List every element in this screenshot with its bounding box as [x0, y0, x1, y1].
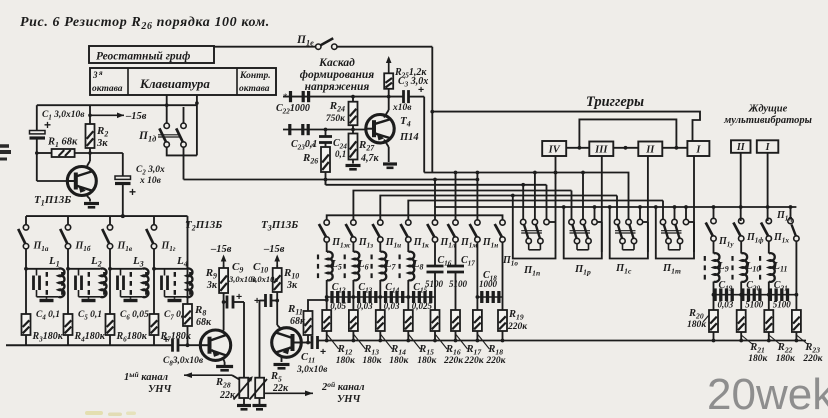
svg-text:Реостатный гриф: Реостатный гриф	[96, 50, 190, 63]
riser c5 tall	[434, 180, 436, 208]
switch middle col8	[500, 220, 505, 225]
svg-text:R6180к: R6180к	[116, 331, 148, 344]
wire R3 bottom	[25, 335, 27, 345]
monostable box I	[757, 140, 779, 153]
riser c6 to b0	[455, 173, 457, 220]
svg-text:5100: 5100	[745, 300, 764, 310]
svg-text:х 10в: х 10в	[139, 176, 162, 186]
wire from fretboard to П1е	[214, 46, 316, 48]
resistor R6	[106, 314, 115, 335]
svg-text:IV: IV	[548, 145, 561, 156]
trigger III output drop	[601, 156, 603, 252]
svg-text:октава: октава	[92, 84, 123, 94]
T4 emitter wire	[384, 110, 389, 118]
switch П1а	[25, 216, 27, 225]
svg-text:+: +	[44, 118, 51, 132]
switch middle col5	[432, 220, 437, 225]
riser П1р c3	[594, 207, 596, 219]
scan artifact left edge	[0, 144, 9, 148]
trigger coupling line B	[579, 119, 676, 147]
switch П1ц	[788, 218, 793, 223]
trigger chain link IV-III	[566, 147, 589, 149]
resistor R24	[352, 97, 354, 102]
left top bus	[26, 215, 188, 217]
svg-text:0,03: 0,03	[357, 301, 373, 311]
trigger box II	[638, 142, 662, 157]
wire C8 to T2 base	[178, 344, 200, 346]
resistor R19	[498, 310, 507, 331]
resistor R10	[276, 265, 278, 268]
capacitor C1	[36, 105, 38, 130]
capacitor C14	[380, 296, 408, 298]
svg-text:5100: 5100	[773, 300, 792, 310]
svg-text:–15в: –15в	[210, 244, 232, 255]
svg-text:Ждущие: Ждущие	[748, 104, 788, 115]
trigger IV output drop	[555, 156, 557, 222]
wire R4 bottom	[67, 335, 69, 345]
inductor L6	[352, 242, 354, 252]
-15v arrow T3	[276, 257, 278, 266]
svg-text:Контр.: Контр.	[239, 71, 271, 81]
svg-text:750к: 750к	[326, 114, 346, 124]
leader R21	[741, 335, 752, 344]
resistor R18	[473, 310, 482, 331]
svg-text:R1 68к: R1 68к	[47, 137, 78, 150]
wire R26 column to b2	[325, 180, 327, 185]
svg-text:С5 0,1: С5 0,1	[78, 310, 102, 322]
svg-text:Т3П13Б: Т3П13Б	[261, 219, 298, 233]
ground R5	[253, 404, 267, 407]
trigger II output drop	[647, 156, 649, 252]
svg-text:0,03: 0,03	[384, 301, 400, 311]
svg-text:УНЧ: УНЧ	[337, 394, 361, 405]
capacitor C3	[402, 90, 405, 103]
svg-text:+: +	[129, 185, 136, 199]
leader R22	[769, 335, 780, 344]
wire R1 row	[37, 152, 52, 154]
switch middle col4	[406, 220, 411, 225]
output arrow channel2	[265, 392, 313, 394]
wire col П1б drop	[67, 249, 69, 314]
junction b0-IV	[554, 171, 558, 175]
inductor L9	[714, 253, 720, 282]
leader R16	[435, 334, 447, 349]
tank ground bar	[168, 299, 182, 302]
wire col П1в drop	[109, 249, 111, 314]
capacitor C9	[224, 301, 227, 303]
inductor L11	[769, 253, 775, 282]
resistor R20	[709, 310, 718, 332]
inductor L1	[26, 268, 59, 270]
riser П1т c2	[674, 207, 676, 219]
riser П1с c1	[616, 196, 618, 220]
svg-text:Каскад: Каскад	[318, 57, 355, 69]
wire col L10	[740, 241, 742, 253]
svg-text:68к: 68к	[196, 317, 212, 328]
svg-text:180к: 180к	[776, 354, 796, 364]
svg-text:III: III	[594, 145, 608, 156]
svg-text:220к: 220к	[802, 354, 823, 364]
resistor R13	[349, 310, 358, 331]
riser П1у	[713, 207, 715, 218]
riser П1р c2	[582, 173, 584, 220]
capacitor C23 base wire	[283, 129, 366, 131]
svg-text:180к: 180к	[417, 356, 437, 366]
resistor R7	[150, 314, 159, 335]
wire keyboard tap right	[196, 95, 198, 155]
svg-text:3к: 3к	[206, 280, 218, 291]
svg-text:Триггеры: Триггеры	[586, 94, 644, 110]
trigger feed line A	[432, 112, 700, 141]
scan artifact bottom	[85, 411, 103, 415]
resistor R14	[376, 310, 385, 331]
transistor T3	[272, 328, 302, 358]
svg-text:*: *	[311, 142, 316, 153]
resistor R16	[431, 310, 440, 331]
riser П1п c2	[534, 173, 536, 220]
svg-text:Клавиатура: Клавиатура	[139, 76, 210, 91]
ground T1	[84, 202, 99, 205]
resistor R3	[22, 314, 31, 335]
svg-text:х10в: х10в	[392, 103, 412, 113]
resistor R8 feed	[187, 216, 189, 304]
capacitor C10	[264, 294, 267, 307]
wire C10 to R5	[260, 300, 266, 302]
svg-text:0,03: 0,03	[718, 300, 734, 310]
T3 emitter wire	[277, 325, 281, 330]
svg-text:3: 3	[92, 70, 98, 80]
svg-text:С2 3,0х: С2 3,0х	[136, 165, 165, 177]
wire П1е to right corner	[337, 46, 432, 48]
wire П1ц drop	[795, 241, 797, 309]
wire L10 bottom	[740, 282, 742, 310]
svg-text:–15в: –15в	[125, 111, 147, 122]
svg-text:напряжения: напряжения	[305, 81, 370, 93]
wire col П1а drop	[25, 249, 27, 314]
capacitor C13	[353, 296, 380, 298]
rheostat fretboard block	[89, 46, 214, 63]
wire over right П1д contact	[183, 107, 185, 123]
T2 emitter wire	[223, 330, 224, 333]
tank ground bar	[124, 299, 138, 302]
wire top of T1 stage	[37, 104, 197, 106]
wire П1е vertical drop	[431, 47, 433, 173]
switch П1ф	[740, 217, 743, 219]
bus b0	[424, 173, 628, 220]
inductor L4	[154, 268, 187, 270]
switch middle col3	[378, 220, 383, 225]
monostable I output drop	[767, 153, 769, 221]
leader R18	[477, 334, 489, 349]
ground T2	[216, 365, 233, 368]
tank ground bar	[82, 299, 96, 302]
svg-text:R3180к: R3180к	[32, 331, 64, 344]
svg-text:формирования: формирования	[300, 69, 375, 81]
trigger chain link III-II	[613, 147, 638, 149]
switch middle col2	[351, 220, 356, 225]
svg-text:П14: П14	[399, 132, 419, 143]
svg-text:С83,0х10в: С83,0х10в	[163, 356, 204, 368]
riser П1с common	[609, 207, 611, 214]
riser П1п c3	[546, 185, 548, 220]
switch group П1т	[656, 214, 694, 259]
resistor R22	[764, 310, 773, 332]
switch П1б	[67, 216, 69, 225]
svg-text:С4 0,1: С4 0,1	[36, 310, 60, 322]
riser c7 to b0	[476, 173, 478, 220]
svg-text:180к: 180к	[362, 356, 382, 366]
wire col L11	[768, 241, 770, 253]
keyboard block	[90, 68, 276, 95]
resistor R2	[89, 105, 91, 124]
bus b4	[380, 196, 617, 220]
riser П1р common	[563, 207, 565, 214]
svg-text:II: II	[736, 142, 746, 153]
inductor L3	[110, 268, 143, 270]
main bottom bus	[318, 340, 806, 342]
tank ground bar	[40, 299, 54, 302]
T1 emitter wire	[87, 161, 90, 166]
capacitor C17	[455, 242, 457, 266]
-15v arrow T2	[223, 257, 225, 266]
riser П1т c3	[685, 207, 687, 219]
wire R11 to L5 node	[308, 300, 327, 311]
switch middle col7	[475, 220, 480, 225]
resistor R12	[322, 310, 331, 331]
resistor R25	[384, 73, 393, 89]
svg-text:22к: 22к	[272, 383, 289, 394]
svg-text:1000: 1000	[479, 279, 498, 289]
riser П1п c1	[522, 185, 524, 220]
svg-text:+: +	[320, 346, 326, 358]
wire left drop to T1 base	[36, 153, 38, 181]
svg-text:я: я	[98, 69, 103, 77]
inductor L7	[379, 242, 381, 252]
wire R8 to base	[187, 326, 189, 345]
bus b5	[408, 201, 663, 220]
svg-text:3к: 3к	[286, 280, 298, 291]
riser П1ц	[790, 207, 792, 218]
trigger box III	[589, 142, 613, 157]
switch П1г	[153, 216, 155, 225]
output arrow channel1	[232, 375, 239, 379]
capacitor C24	[325, 130, 327, 137]
svg-text:С221000: С221000	[276, 103, 310, 116]
svg-text:*: *	[283, 92, 288, 102]
R25 supply arrow	[388, 58, 390, 73]
svg-text:20wek: 20wek	[707, 370, 828, 418]
svg-text:5100: 5100	[425, 279, 444, 289]
inductor L5	[326, 242, 328, 252]
T2 collector wire	[223, 358, 225, 363]
П1д output drop	[183, 147, 185, 179]
resistor R26	[321, 147, 330, 172]
transistor T2	[200, 330, 230, 360]
switch П1в	[109, 216, 111, 225]
ground R27	[346, 164, 361, 167]
resistor R11	[304, 311, 313, 335]
svg-text:180к: 180к	[748, 354, 768, 364]
resistor R21	[737, 310, 746, 332]
capacitor C8	[171, 339, 174, 352]
resistor R4	[64, 314, 73, 335]
wire R7 bottom	[153, 335, 155, 345]
svg-text:180к: 180к	[336, 356, 356, 366]
trigger box IV	[542, 141, 566, 156]
resistor R9	[223, 265, 225, 268]
ground T3	[274, 363, 290, 366]
ground R28	[237, 404, 251, 407]
bus b7	[327, 215, 503, 220]
resistor R27	[352, 130, 354, 134]
switch П1е	[316, 44, 321, 49]
switch П1х	[768, 217, 769, 219]
trigger I output drop	[693, 156, 695, 252]
bus b6	[435, 207, 796, 220]
switch П1у	[711, 218, 716, 223]
switch group П1п	[513, 214, 556, 259]
svg-text:0,05: 0,05	[330, 301, 346, 311]
wire C3 output drop	[409, 96, 425, 98]
monostable II output drop	[740, 153, 742, 221]
wire R6 bottom	[109, 335, 111, 345]
wire col L9	[713, 241, 715, 253]
-15v arrow top	[90, 114, 124, 116]
svg-text:0,025: 0,025	[412, 301, 433, 311]
svg-text:УНЧ: УНЧ	[148, 384, 172, 395]
resistor R8	[183, 304, 192, 326]
svg-text:4,7к: 4,7к	[360, 153, 380, 164]
resistor R17	[451, 310, 460, 331]
switch group П1с	[610, 214, 648, 259]
svg-text:68к: 68к	[290, 316, 306, 327]
svg-text:220к: 220к	[443, 356, 464, 366]
wire C9 to R28	[233, 301, 244, 303]
inductor L2	[68, 268, 101, 270]
svg-text:Т1П13Б: Т1П13Б	[34, 194, 71, 208]
riser П1п common	[512, 196, 514, 215]
svg-text:–15в: –15в	[263, 244, 285, 255]
capacitor C15	[408, 296, 435, 298]
leader R12	[327, 334, 339, 349]
svg-text:+: +	[163, 334, 169, 346]
trigger box I	[687, 141, 709, 156]
svg-text:5100: 5100	[449, 279, 468, 289]
wire L9 bottom	[713, 282, 715, 310]
T1 collector wire	[87, 196, 90, 199]
leader R13	[353, 334, 365, 349]
svg-text:3к: 3к	[96, 138, 108, 149]
svg-text:Т2П13Б: Т2П13Б	[185, 219, 222, 233]
switch П1д	[164, 123, 169, 128]
riser П1т common	[655, 207, 657, 214]
П1д bypass loop	[167, 147, 197, 155]
bus b1	[184, 179, 478, 181]
capacitor C2	[122, 153, 124, 176]
junction R2 top	[88, 114, 92, 118]
svg-text:II: II	[645, 145, 655, 156]
capacitor C18	[477, 296, 502, 298]
resistor R23	[792, 310, 801, 332]
leader R17	[456, 334, 468, 349]
switch group П1р	[564, 214, 602, 259]
capacitor C22	[283, 96, 404, 98]
wire C11 to bus	[317, 342, 320, 344]
switch middle col6	[453, 220, 458, 225]
capacitor C20	[741, 294, 769, 296]
svg-text:октава: октава	[239, 84, 270, 94]
wire col7 drop	[476, 242, 478, 309]
svg-text:мультивибраторы: мультивибраторы	[723, 115, 812, 126]
leader R23	[796, 335, 807, 344]
riser П1р c1	[571, 191, 573, 220]
svg-text:180к: 180к	[389, 356, 409, 366]
svg-text:0,1: 0,1	[335, 149, 346, 159]
resistor R15	[404, 310, 413, 331]
ground T4	[383, 162, 397, 165]
leader R15	[408, 334, 420, 349]
svg-text:+: +	[418, 84, 424, 96]
svg-text:R4180к: R4180к	[74, 331, 106, 344]
transistor T1	[67, 167, 96, 196]
wire keyboard tap left	[166, 95, 168, 123]
potentiometer R28	[239, 378, 248, 398]
transistor T4	[366, 115, 394, 143]
svg-text:220к: 220к	[485, 356, 506, 366]
capacitor C11	[301, 342, 311, 344]
inductor L8	[407, 242, 409, 252]
capacitor C21	[769, 294, 797, 296]
svg-text:180к: 180к	[687, 320, 707, 330]
T4 collector wire	[384, 140, 389, 148]
svg-text:С6 0,05: С6 0,05	[120, 310, 149, 322]
wire L11 bottom	[768, 282, 770, 310]
svg-text:3,0х10в: 3,0х10в	[250, 274, 278, 284]
switch middle col1	[324, 220, 329, 225]
wire col П1г drop	[153, 249, 155, 314]
T3 collector wire	[281, 356, 283, 363]
svg-text:220к: 220к	[464, 356, 485, 366]
potentiometer R5	[255, 378, 264, 398]
riser П1с c3	[639, 207, 641, 219]
resistor R1	[52, 149, 75, 157]
bus b3	[353, 191, 571, 220]
leader R14	[380, 334, 392, 349]
svg-text:3,0х10в: 3,0х10в	[296, 365, 328, 375]
trigger chain link II-I	[662, 147, 687, 149]
wire col8 drop	[502, 242, 504, 309]
inductor L10	[741, 253, 747, 282]
bus b2	[326, 184, 547, 186]
capacitor C16	[434, 242, 436, 266]
svg-text:22к: 22к	[219, 390, 236, 401]
svg-text:220к: 220к	[507, 322, 528, 332]
capacitor C19	[714, 294, 742, 296]
riser П1т c1	[662, 201, 664, 220]
left bottom bus	[6, 344, 172, 346]
capacitor C12	[327, 296, 354, 298]
monostable box II	[731, 140, 751, 153]
